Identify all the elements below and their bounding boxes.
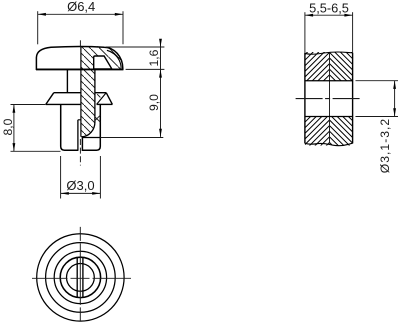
head material section hatch [92,44,124,72]
cone top circle [54,251,106,303]
slot right edge bottom view [82,258,84,297]
dimension 1,6 / 9,0 vertical line [160,40,162,137]
slot top step [78,119,81,121]
dimension 8,0 vertical line [13,105,15,152]
dimension Ø6,4 line [38,13,123,15]
svg-text:1,6: 1,6 [147,49,161,66]
body wall hatch slash [95,115,101,121]
cone right inner slant [97,93,106,104]
cone bottom rim left [46,103,81,105]
8,0 arrow down [13,143,16,151]
body circle [60,257,100,297]
dimension Ø3,1-3,2 vertical line [394,81,396,117]
5,5-6,5 left arrow [305,14,313,17]
pin shaft section hatch [79,67,97,139]
Ø3,0 right extension line [99,156,101,199]
centerline below (dashed) [79,139,81,166]
extension line head top [106,46,164,48]
bottom break (wavy) line [305,143,353,145]
neck left edge [66,69,68,92]
plate center vertical line [329,53,331,144]
rivet head silhouette [36,47,122,70]
Ø3,0 left arrow [61,192,69,195]
5,5-6,5 right extension line [352,12,354,53]
cone right outer slant [106,93,112,105]
Ø3,1-3,2 top extension line [356,80,399,82]
top break (wavy) line [305,52,353,54]
extension line legs shoulder [100,137,163,139]
5,5-6,5 right arrow [344,14,352,17]
arrow down to head top [159,39,162,47]
arrow up to head bottom [159,69,162,77]
body wall hatch backslash [95,117,100,122]
dimension Ø6,4 left extension line [37,11,39,44]
dimension Ø6,4 left arrow [38,13,46,16]
dimension Ø6,4 right extension line [122,11,124,44]
crosshair vertical [79,227,81,322]
svg-text:Ø3,1-3,2: Ø3,1-3,2 [378,118,392,173]
8,0 top extension line [11,104,46,106]
svg-text:9,0: 9,0 [147,94,161,111]
dimension Ø6,4 right arrow [115,13,123,16]
right leg and body right wall [82,104,100,150]
pin left edge (section boundary) [80,47,82,137]
cone bottom rim right [97,103,113,105]
Ø3,1-3,2 arrow down [393,108,396,116]
5,5-6,5 left extension line [304,12,306,53]
Ø3,0 right arrow [92,192,100,195]
plate bottom hatch (herringbone tents) [305,92,353,167]
Ø3,1-3,2 bottom extension line [356,116,399,118]
outer head circle [37,234,124,321]
body left wall and left leg bottom [61,104,78,150]
head underside line [36,68,123,70]
svg-text:Ø3,0: Ø3,0 [66,178,94,193]
pin right edge with rounded tip [82,69,95,137]
Ø3,0 left extension line [60,156,62,199]
hole axis centerline [296,98,361,100]
plate top hatch (herringbone tents) [305,30,353,105]
hole bottom edge [305,116,353,118]
Ø3,1-3,2 arrow up [393,81,396,89]
5,5-6,5 dimension line [305,14,353,16]
plate right edge [352,53,354,144]
cone tent hatch tick [97,94,100,97]
arrow down to shoulder [159,129,162,137]
head rim inner arc [107,50,121,68]
cone rim circle [46,243,116,313]
extension line head bottom [126,68,165,70]
slot left edge [77,120,79,151]
hole top edge [305,80,353,82]
cone (umbrella flange) top edge left [54,92,81,94]
cone left slant [46,93,54,105]
svg-text:5,5-6,5: 5,5-6,5 [309,0,349,15]
head section hatch [80,44,96,72]
pin head section outline (white trapezoid) [94,56,112,69]
legs inner shoulder line [82,137,100,139]
cone top edge right [95,92,106,94]
centerline stub above head [79,40,81,46]
plate left edge [304,53,306,143]
neck circle [67,264,95,292]
svg-text:8,0: 8,0 [1,118,15,135]
Ø3,0 dimension line [61,192,101,194]
slot left edge bottom view [76,258,78,297]
8,0 bottom extension line [11,150,61,152]
8,0 arrow up [13,105,16,113]
crosshair horizontal [32,277,131,279]
svg-text:Ø6,4: Ø6,4 [67,0,95,14]
